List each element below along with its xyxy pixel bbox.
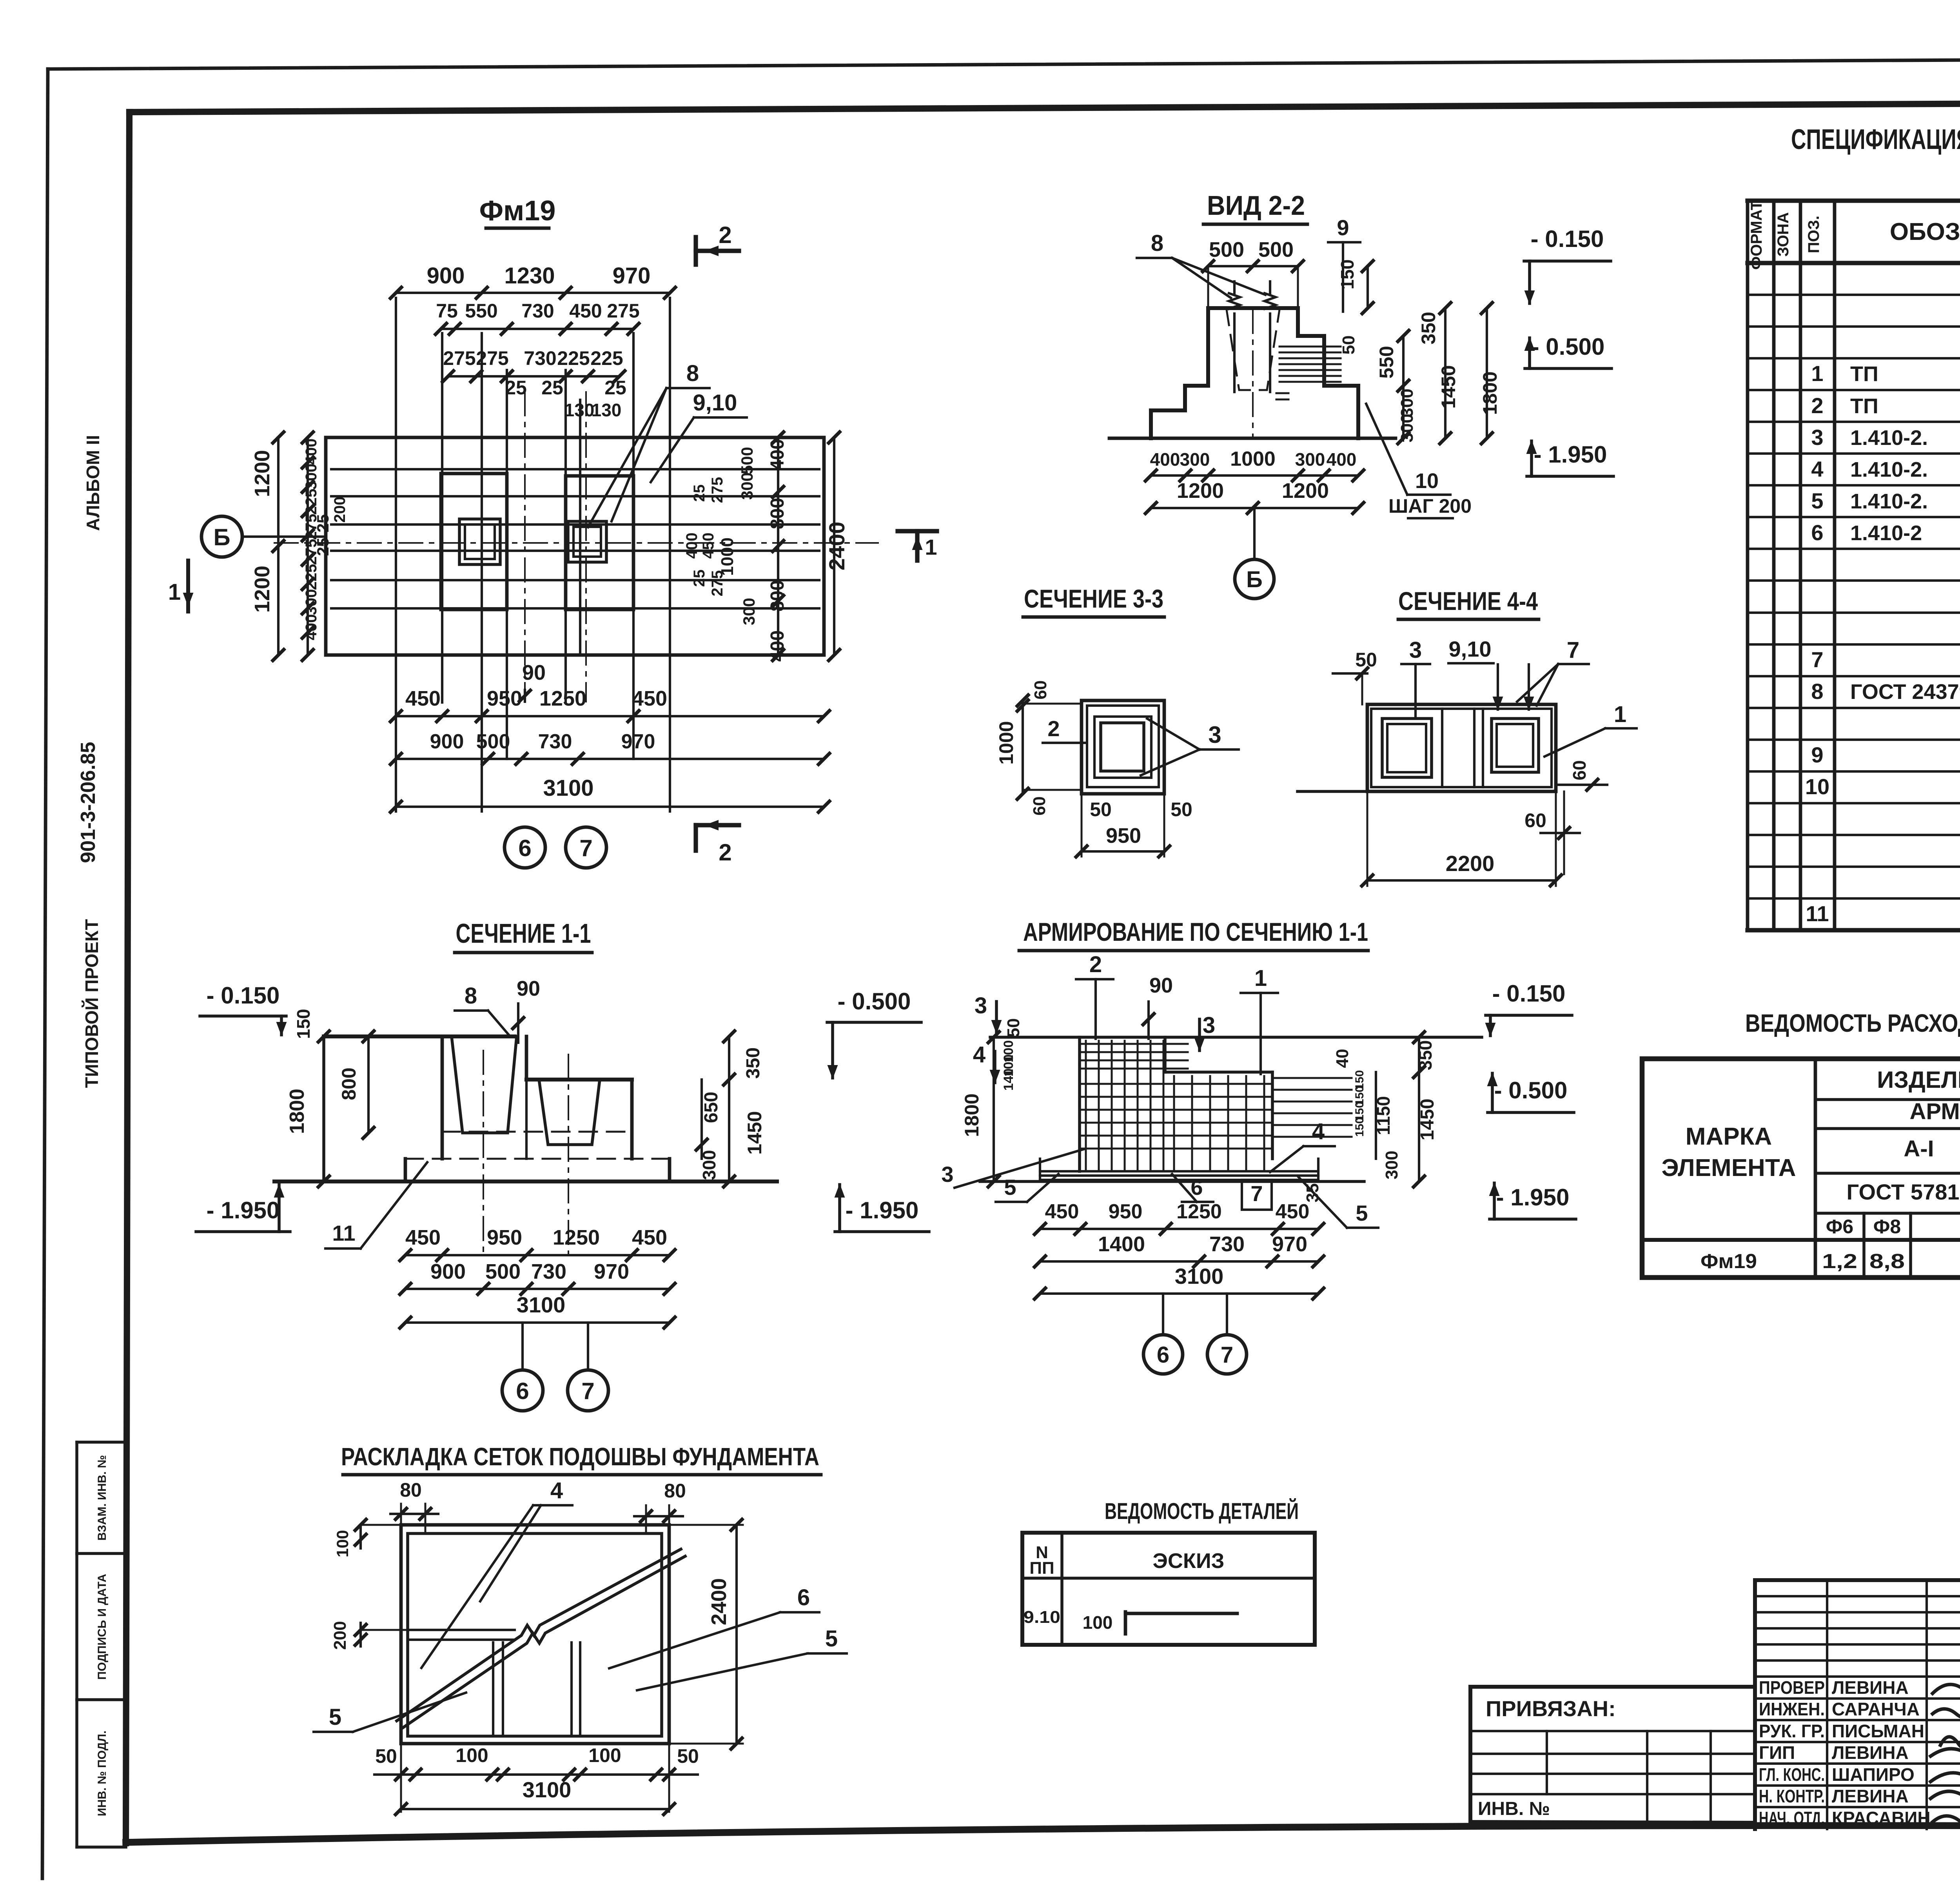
- svg-text:500: 500: [485, 1260, 521, 1283]
- svg-text:25: 25: [505, 377, 527, 399]
- svg-text:900: 900: [430, 1260, 466, 1283]
- svg-text:1200: 1200: [250, 450, 274, 497]
- svg-text:950: 950: [1109, 1200, 1143, 1223]
- svg-text:500: 500: [738, 447, 756, 474]
- svg-text:450: 450: [632, 1226, 667, 1249]
- svg-text:- 1.950: - 1.950: [1534, 441, 1607, 468]
- svg-text:3100: 3100: [523, 1777, 572, 1802]
- svg-text:4: 4: [973, 1042, 985, 1067]
- svg-text:6: 6: [1811, 520, 1823, 545]
- svg-text:2: 2: [719, 839, 731, 866]
- svg-text:300: 300: [303, 464, 320, 490]
- svg-text:ПОЗ.: ПОЗ.: [1805, 216, 1822, 253]
- svg-text:400: 400: [767, 439, 788, 470]
- svg-text:1800: 1800: [286, 1089, 309, 1134]
- svg-text:8,8: 8,8: [1869, 1250, 1905, 1273]
- svg-text:450: 450: [632, 687, 667, 710]
- svg-text:100: 100: [588, 1744, 621, 1766]
- svg-text:ЗОНА: ЗОНА: [1775, 212, 1792, 256]
- svg-text:130: 130: [592, 400, 622, 420]
- svg-text:Ф8: Ф8: [1873, 1216, 1901, 1238]
- svg-text:25: 25: [691, 485, 708, 502]
- svg-text:3100: 3100: [1175, 1264, 1224, 1288]
- svg-text:1800: 1800: [961, 1093, 983, 1137]
- svg-text:5: 5: [329, 1704, 341, 1730]
- svg-text:11: 11: [332, 1221, 355, 1245]
- svg-text:ЭЛЕМЕНТА: ЭЛЕМЕНТА: [1661, 1154, 1796, 1181]
- svg-text:2: 2: [1047, 716, 1060, 741]
- svg-text:90: 90: [522, 661, 546, 684]
- svg-text:1450: 1450: [1437, 365, 1459, 408]
- svg-text:ВЗАМ. ИНВ. №: ВЗАМ. ИНВ. №: [96, 1455, 109, 1541]
- svg-text:450: 450: [405, 1226, 441, 1249]
- svg-text:6: 6: [516, 1378, 529, 1404]
- svg-text:1.410-2.: 1.410-2.: [1850, 490, 1928, 513]
- svg-text:МАРКА: МАРКА: [1686, 1123, 1772, 1150]
- svg-text:300: 300: [699, 1150, 719, 1180]
- svg-text:1.410-2.: 1.410-2.: [1850, 426, 1928, 450]
- svg-text:3: 3: [975, 993, 987, 1018]
- svg-text:150: 150: [293, 1009, 314, 1039]
- svg-text:1: 1: [1811, 361, 1823, 386]
- svg-text:1.410-2: 1.410-2: [1850, 521, 1922, 545]
- svg-text:970: 970: [613, 263, 651, 289]
- svg-text:АРМАТУРА КЛАССА: АРМАТУРА КЛАССА: [1910, 1099, 1960, 1124]
- svg-text:970: 970: [621, 730, 655, 753]
- svg-text:350: 350: [1417, 312, 1439, 344]
- svg-text:6: 6: [518, 835, 531, 861]
- svg-text:9: 9: [1811, 742, 1823, 767]
- svg-text:90: 90: [517, 977, 540, 1000]
- svg-text:150: 150: [1337, 260, 1357, 290]
- svg-text:500: 500: [476, 730, 510, 753]
- svg-text:ГИП: ГИП: [1759, 1742, 1795, 1763]
- svg-text:7: 7: [581, 1378, 594, 1404]
- svg-text:ИЗДЕЛИЯ АРМАТУРНЫЕ: ИЗДЕЛИЯ АРМАТУРНЫЕ: [1877, 1067, 1960, 1093]
- svg-text:Б: Б: [1246, 567, 1263, 592]
- svg-text:1800: 1800: [1479, 371, 1501, 415]
- svg-text:450: 450: [1045, 1200, 1079, 1223]
- svg-text:200: 200: [331, 497, 348, 523]
- svg-text:4: 4: [1811, 457, 1823, 481]
- svg-text:ПП: ПП: [1029, 1559, 1054, 1578]
- svg-text:350: 350: [743, 1047, 764, 1079]
- svg-text:275: 275: [476, 347, 508, 369]
- svg-text:650: 650: [701, 1092, 722, 1123]
- svg-text:ТП: ТП: [1850, 394, 1878, 418]
- svg-text:225: 225: [303, 489, 320, 515]
- svg-text:150: 150: [1353, 1117, 1366, 1137]
- svg-text:ПРОВЕР: ПРОВЕР: [1759, 1677, 1825, 1698]
- svg-text:ЛЕВИНА: ЛЕВИНА: [1832, 1677, 1909, 1698]
- svg-text:САРАНЧА: САРАНЧА: [1832, 1699, 1920, 1719]
- svg-text:1250: 1250: [1176, 1200, 1222, 1223]
- svg-text:550: 550: [465, 300, 497, 322]
- svg-text:730: 730: [521, 300, 554, 322]
- svg-text:2400: 2400: [824, 522, 849, 571]
- svg-text:1200: 1200: [1177, 479, 1224, 503]
- svg-text:ГОСТ 24379.1-80: ГОСТ 24379.1-80: [1850, 680, 1960, 704]
- svg-text:7: 7: [579, 835, 592, 861]
- svg-text:25: 25: [314, 538, 332, 556]
- svg-text:РУК. ГР.: РУК. ГР.: [1759, 1721, 1825, 1741]
- svg-text:50: 50: [1004, 1018, 1023, 1038]
- svg-text:400: 400: [683, 533, 701, 559]
- svg-text:8: 8: [1151, 230, 1163, 256]
- svg-text:100: 100: [333, 1530, 352, 1557]
- svg-text:100: 100: [1083, 1612, 1113, 1633]
- svg-text:ФОРМАТ: ФОРМАТ: [1748, 201, 1765, 270]
- svg-text:5: 5: [825, 1626, 838, 1651]
- svg-text:60: 60: [1524, 809, 1546, 831]
- svg-text:300: 300: [1397, 414, 1417, 442]
- svg-text:ПРИВЯЗАН:: ПРИВЯЗАН:: [1486, 1696, 1616, 1721]
- svg-text:100: 100: [456, 1744, 488, 1766]
- svg-text:Фм19: Фм19: [479, 195, 556, 227]
- svg-text:80: 80: [400, 1479, 422, 1501]
- svg-text:ГЛ. КОНС.: ГЛ. КОНС.: [1759, 1764, 1825, 1785]
- svg-text:ИНЖЕН.: ИНЖЕН.: [1759, 1699, 1825, 1719]
- svg-text:225: 225: [557, 347, 590, 369]
- svg-text:1: 1: [1614, 702, 1626, 727]
- svg-text:ЛЕВИНА: ЛЕВИНА: [1832, 1742, 1909, 1763]
- svg-text:900: 900: [430, 730, 464, 753]
- svg-text:75: 75: [436, 300, 458, 322]
- svg-text:1: 1: [925, 535, 937, 559]
- svg-text:50: 50: [1090, 798, 1112, 820]
- svg-text:7: 7: [1567, 637, 1579, 663]
- svg-text:5: 5: [1004, 1175, 1016, 1200]
- svg-text:970: 970: [1272, 1232, 1307, 1256]
- svg-text:ТП: ТП: [1850, 362, 1878, 386]
- svg-text:25: 25: [691, 570, 708, 587]
- svg-text:800: 800: [767, 498, 788, 529]
- svg-text:25: 25: [604, 377, 626, 399]
- svg-text:1250: 1250: [553, 1226, 600, 1249]
- svg-text:730: 730: [531, 1260, 566, 1283]
- svg-text:2: 2: [719, 222, 731, 248]
- svg-text:1450: 1450: [744, 1111, 766, 1154]
- svg-text:3: 3: [1208, 722, 1221, 748]
- svg-text:400: 400: [1327, 449, 1357, 470]
- svg-text:60: 60: [1031, 681, 1050, 700]
- svg-text:Ф6: Ф6: [1826, 1216, 1853, 1238]
- svg-text:3: 3: [941, 1162, 953, 1187]
- svg-text:300: 300: [1397, 388, 1417, 417]
- svg-text:6: 6: [1157, 1342, 1169, 1368]
- svg-text:5: 5: [1811, 488, 1823, 513]
- svg-text:ГОСТ 5781-82: ГОСТ 5781-82: [1847, 1180, 1960, 1204]
- svg-text:275: 275: [709, 477, 726, 503]
- svg-text:50: 50: [677, 1745, 699, 1767]
- svg-text:Фм19: Фм19: [1700, 1250, 1757, 1273]
- svg-text:СЕЧЕНИЕ 4-4: СЕЧЕНИЕ 4-4: [1398, 586, 1538, 615]
- svg-text:СЕЧЕНИЕ 1-1: СЕЧЕНИЕ 1-1: [456, 918, 591, 949]
- svg-text:- 1.950: - 1.950: [1496, 1184, 1570, 1210]
- svg-text:ПИСЬМАН: ПИСЬМАН: [1832, 1721, 1924, 1741]
- svg-text:1250: 1250: [539, 687, 586, 710]
- svg-text:2200: 2200: [1446, 851, 1495, 876]
- svg-text:950: 950: [487, 1226, 522, 1249]
- svg-text:ЛЕВИНА: ЛЕВИНА: [1832, 1786, 1909, 1806]
- svg-text:Б: Б: [213, 524, 230, 550]
- svg-text:СЕЧЕНИЕ 3-3: СЕЧЕНИЕ 3-3: [1024, 584, 1163, 613]
- svg-text:1200: 1200: [250, 566, 274, 613]
- svg-text:1: 1: [168, 579, 181, 605]
- svg-text:ТИПОВОЙ ПРОЕКТ: ТИПОВОЙ ПРОЕКТ: [82, 919, 102, 1088]
- svg-text:40: 40: [1333, 1049, 1352, 1068]
- svg-text:950: 950: [1106, 824, 1141, 847]
- svg-text:РАСКЛАДКА СЕТОК ПОДОШВЫ ФУНДА: РАСКЛАДКА СЕТОК ПОДОШВЫ ФУНДАМЕНТА: [341, 1443, 819, 1471]
- svg-text:25: 25: [314, 514, 332, 533]
- svg-text:8: 8: [1811, 679, 1823, 704]
- svg-text:1,2: 1,2: [1822, 1250, 1857, 1273]
- svg-text:ШАГ 200: ШАГ 200: [1388, 495, 1472, 517]
- svg-text:450: 450: [569, 300, 602, 322]
- svg-text:АЛЬБОМ II: АЛЬБОМ II: [83, 435, 103, 531]
- svg-text:ВЕДОМОСТЬ ДЕТАЛЕЙ: ВЕДОМОСТЬ ДЕТАЛЕЙ: [1105, 1499, 1299, 1524]
- svg-text:50: 50: [1339, 336, 1358, 355]
- svg-text:1200: 1200: [1282, 479, 1329, 503]
- svg-text:10: 10: [1805, 774, 1829, 799]
- svg-text:275: 275: [709, 570, 726, 597]
- svg-text:1: 1: [1254, 965, 1267, 991]
- svg-text:80: 80: [664, 1480, 686, 1502]
- svg-text:1230: 1230: [504, 263, 555, 289]
- svg-text:300: 300: [740, 598, 758, 625]
- svg-text:А-I: А-I: [1904, 1136, 1934, 1161]
- svg-text:ШАПИРО: ШАПИРО: [1832, 1764, 1915, 1785]
- svg-text:1.410-2.: 1.410-2.: [1850, 458, 1928, 481]
- svg-text:7: 7: [1811, 647, 1823, 672]
- svg-text:- 0.500: - 0.500: [838, 988, 911, 1014]
- svg-text:300: 300: [1295, 449, 1325, 470]
- svg-text:970: 970: [594, 1260, 629, 1283]
- svg-text:Н. КОНТР.: Н. КОНТР.: [1759, 1786, 1825, 1806]
- svg-text:ОБОЗНАЧЕНИЕ: ОБОЗНАЧЕНИЕ: [1890, 218, 1960, 245]
- svg-text:КРАСАВИН: КРАСАВИН: [1832, 1808, 1931, 1828]
- svg-text:2400: 2400: [707, 1578, 731, 1625]
- svg-text:1000: 1000: [718, 537, 737, 576]
- svg-text:3100: 3100: [517, 1292, 566, 1317]
- svg-text:8: 8: [465, 983, 477, 1009]
- svg-text:4: 4: [1312, 1119, 1325, 1144]
- svg-text:8: 8: [686, 361, 699, 386]
- svg-text:- 0.500: - 0.500: [1532, 334, 1605, 360]
- svg-text:1000: 1000: [995, 721, 1017, 764]
- svg-text:АРМИРОВАНИЕ ПО СЕЧЕНИЮ 1-1: АРМИРОВАНИЕ ПО СЕЧЕНИЮ 1-1: [1023, 917, 1368, 946]
- svg-text:5: 5: [1356, 1201, 1368, 1225]
- svg-text:50: 50: [375, 1745, 397, 1767]
- svg-text:275: 275: [443, 347, 475, 369]
- svg-text:130: 130: [564, 400, 595, 420]
- svg-text:300: 300: [1180, 449, 1210, 470]
- svg-text:60: 60: [1030, 797, 1049, 816]
- svg-text:140: 140: [1001, 1069, 1016, 1091]
- svg-text:800: 800: [338, 1067, 360, 1100]
- svg-text:- 0.150: - 0.150: [1531, 226, 1604, 252]
- svg-text:900: 900: [427, 263, 465, 289]
- svg-text:3100: 3100: [543, 775, 593, 801]
- svg-text:730: 730: [524, 347, 556, 369]
- svg-text:7: 7: [1221, 1342, 1233, 1368]
- svg-text:901-3-206.85: 901-3-206.85: [77, 742, 100, 863]
- svg-text:1400: 1400: [1098, 1232, 1145, 1256]
- svg-text:- 0.500: - 0.500: [1494, 1077, 1568, 1103]
- svg-text:ПОДПИСЬ И ДАТА: ПОДПИСЬ И ДАТА: [96, 1574, 109, 1680]
- svg-text:6: 6: [797, 1585, 810, 1610]
- svg-text:9: 9: [1337, 215, 1349, 240]
- svg-text:- 0.150: - 0.150: [207, 982, 280, 1009]
- svg-text:ИНВ. №: ИНВ. №: [1478, 1798, 1550, 1819]
- svg-text:730: 730: [1209, 1232, 1245, 1256]
- svg-text:ВИД 2-2: ВИД 2-2: [1207, 190, 1305, 221]
- svg-text:3: 3: [1409, 637, 1422, 663]
- svg-text:4: 4: [550, 1478, 563, 1503]
- svg-text:ЭСКИЗ: ЭСКИЗ: [1152, 1549, 1224, 1573]
- svg-text:450: 450: [700, 533, 717, 559]
- svg-text:3: 3: [1203, 1013, 1215, 1038]
- svg-text:300: 300: [738, 472, 756, 500]
- svg-text:- 0.150: - 0.150: [1492, 980, 1566, 1007]
- svg-text:25: 25: [541, 377, 563, 399]
- svg-text:- 1.950: - 1.950: [207, 1197, 280, 1223]
- svg-text:730: 730: [538, 730, 572, 753]
- svg-text:2: 2: [1089, 952, 1102, 977]
- svg-text:275: 275: [607, 300, 639, 322]
- svg-text:225: 225: [590, 347, 623, 369]
- svg-text:500: 500: [1209, 238, 1244, 261]
- svg-text:450: 450: [405, 687, 441, 710]
- svg-text:НАЧ. ОТД.: НАЧ. ОТД.: [1759, 1808, 1825, 1828]
- svg-text:300: 300: [1382, 1151, 1401, 1179]
- svg-text:СПЕЦИФИКАЦИЯ: СПЕЦИФИКАЦИЯ: [1791, 124, 1960, 155]
- svg-text:9,10: 9,10: [1449, 637, 1492, 661]
- svg-text:9,10: 9,10: [693, 390, 737, 416]
- svg-text:50: 50: [1171, 798, 1192, 820]
- svg-text:200: 200: [330, 1621, 350, 1650]
- svg-text:ИНВ. № ПОДЛ.: ИНВ. № ПОДЛ.: [96, 1731, 109, 1817]
- svg-text:500: 500: [1258, 238, 1294, 261]
- svg-text:550: 550: [1376, 346, 1397, 378]
- svg-text:- 1.950: - 1.950: [846, 1197, 919, 1223]
- svg-text:2: 2: [1811, 393, 1823, 418]
- svg-text:9.10: 9.10: [1024, 1608, 1060, 1627]
- svg-text:1000: 1000: [1230, 448, 1276, 470]
- svg-text:3: 3: [1811, 425, 1823, 450]
- svg-text:450: 450: [1276, 1200, 1310, 1223]
- svg-text:950: 950: [487, 687, 522, 710]
- svg-text:ВЕДОМОСТЬ РАСХОДА СТАЛИ НА ЭЛ: ВЕДОМОСТЬ РАСХОДА СТАЛИ НА ЭЛЕМЕНТ, КГ: [1745, 1009, 1960, 1037]
- svg-text:7: 7: [1250, 1181, 1263, 1206]
- svg-text:11: 11: [1806, 901, 1829, 926]
- svg-text:400: 400: [1150, 449, 1180, 470]
- svg-text:10: 10: [1415, 469, 1439, 493]
- svg-text:90: 90: [1149, 974, 1173, 997]
- svg-text:60: 60: [1569, 760, 1590, 780]
